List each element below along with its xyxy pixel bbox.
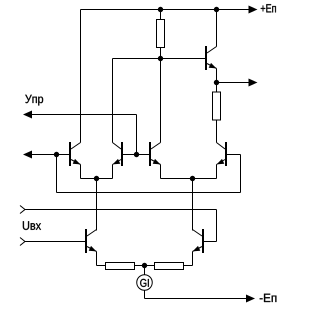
transistor VT6: [193, 179, 204, 266]
wire VT1-VT2 emitters: [81, 178, 113, 180]
label Upr: [25, 95, 43, 106]
node rail-R1 junction: [158, 7, 162, 11]
node left emitter junction: [94, 176, 98, 180]
wire tail node to GI: [144, 266, 146, 275]
wire input 1: [25, 209, 217, 211]
wire VT3-VT4 emitters: [161, 178, 217, 180]
control arrow Upr: [23, 111, 32, 119]
resistor R1: [157, 20, 165, 48]
node Upr base junction: [134, 152, 138, 156]
wire to VT1 base: [32, 154, 69, 156]
wire VT7 emitter output: [217, 82, 249, 84]
node A R1-VT7base junction: [158, 56, 162, 60]
label Uvx: [23, 221, 41, 230]
node VT7 emitter junction: [214, 80, 218, 84]
wire R3 to R4: [135, 265, 155, 267]
wire VT1-base branch down: [56, 155, 58, 193]
wire VT2-VT3 base link: [123, 154, 149, 156]
wire corner down to VT2 collector: [112, 59, 114, 143]
resistor R2: [213, 92, 221, 120]
wire R2 to VT4 collector: [216, 121, 218, 143]
transistor VT7: [206, 10, 217, 83]
wire Upr line: [32, 114, 137, 116]
node right emitter junction: [190, 176, 194, 180]
label +Ep: [261, 4, 276, 12]
wire input 2 to VT5 base: [25, 241, 85, 243]
power +Ep arrow: [249, 6, 258, 14]
wire R1 to node A: [160, 48, 162, 59]
wire rail to R1: [160, 10, 162, 20]
resistor R4: [155, 263, 184, 270]
wire GI down: [144, 290, 146, 298]
transistor VT2: [113, 59, 123, 179]
current source GI: [137, 275, 153, 291]
wire VT4 base corner down: [240, 155, 242, 193]
wire VT4 base right: [227, 154, 241, 156]
input terminal 2: [20, 238, 25, 246]
label GI: [140, 279, 149, 287]
input terminal 1: [20, 206, 25, 214]
wire Upr corner down: [136, 115, 138, 155]
transistor VT5: [86, 179, 97, 266]
wire to VT6 base: [204, 241, 217, 243]
power -Ep arrow: [246, 295, 255, 303]
wire -Ep rail: [145, 298, 247, 300]
transistor VT4: [217, 121, 227, 179]
wire node A down to VT3 collector: [160, 59, 162, 143]
wire left node down to VT5 collector: [96, 179, 98, 231]
wire input1 corner down: [216, 210, 218, 242]
transistor VT1: [70, 142, 81, 179]
resistor R3: [106, 263, 135, 270]
label -Ep: [260, 294, 277, 302]
output arrow right: [249, 79, 258, 87]
wire rail to VT1 collector: [80, 10, 82, 143]
wire right node down to VT6 collector: [192, 179, 194, 231]
wire VT5 emitter to R3: [97, 265, 106, 267]
transistor VT3: [150, 59, 161, 179]
node tail junction: [142, 263, 146, 267]
output arrow left: [23, 151, 32, 159]
wire base cross-coupling net: [57, 192, 241, 194]
node rail-VT7 junction: [214, 7, 218, 11]
node VT1 base junction: [54, 152, 58, 156]
wire +Ep rail: [81, 9, 249, 11]
wire R4 to VT6 emitter: [184, 265, 193, 267]
wire VT2-collector to VT7 base: [113, 58, 206, 60]
wire node to R2: [216, 83, 218, 93]
